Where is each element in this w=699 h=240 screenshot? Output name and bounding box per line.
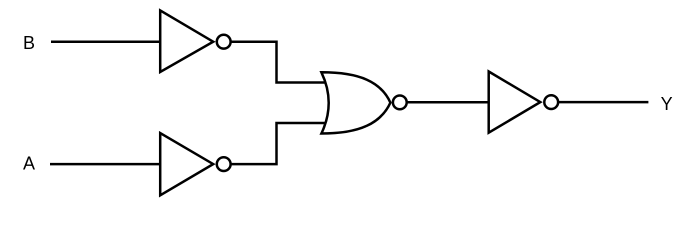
wire Y output bbox=[552, 101, 648, 104]
NOR gate U3 bubble bbox=[393, 96, 407, 110]
svg-text:Y: Y bbox=[661, 94, 673, 114]
wire B input bbox=[51, 40, 161, 43]
svg-text:A: A bbox=[23, 154, 35, 174]
wire A input bbox=[50, 163, 161, 166]
inverter U4 triangle (output) bbox=[489, 72, 541, 133]
inverter U4 bubble bbox=[544, 95, 558, 109]
wire inverter U2 output to NOR bottom input bbox=[224, 123, 330, 164]
inverter U2 bubble bbox=[217, 157, 231, 171]
inverter U2 triangle (input A) bbox=[160, 133, 213, 195]
wire inverter U1 output to NOR top input bbox=[224, 42, 330, 83]
NOR gate U3 body bbox=[321, 72, 390, 133]
svg-text:B: B bbox=[23, 33, 35, 53]
inverter U1 triangle (input B) bbox=[160, 10, 213, 72]
wire NOR output to inverter U4 input bbox=[400, 101, 489, 104]
inverter U1 bubble bbox=[217, 35, 231, 49]
